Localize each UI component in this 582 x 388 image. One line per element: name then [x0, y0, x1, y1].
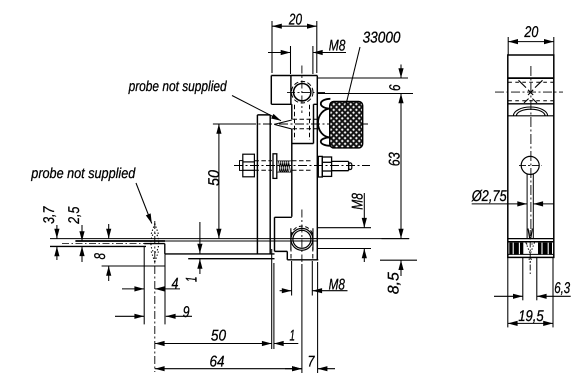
- dim 20 top: [272, 21, 317, 73]
- dim 9: [115, 315, 192, 317]
- top circle thread dashed: [291, 81, 313, 103]
- upper probe hidden lines dashed: [293, 105, 318, 140]
- side probe upper shaft: [528, 229, 532, 239]
- svg-text:4: 4: [172, 275, 179, 292]
- clamp block bottom: [102, 265, 165, 267]
- right bolt shaft: [332, 161, 349, 170]
- top circle centerlines: [287, 66, 326, 114]
- side view outline: [508, 55, 554, 257]
- dim 6,3: [494, 258, 571, 300]
- svg-text:1: 1: [290, 327, 296, 344]
- left plate: [257, 115, 270, 254]
- probe clamp band: [508, 239, 554, 255]
- top circle outer: [294, 84, 311, 101]
- svg-text:6: 6: [387, 84, 404, 91]
- dim 20 side: [508, 37, 554, 55]
- column left edge: [291, 104, 293, 216]
- top plate outline: [271, 76, 317, 105]
- knurl band lines: [508, 78, 554, 104]
- svg-text:8: 8: [92, 253, 109, 260]
- rail bottom edge: [50, 245, 146, 247]
- slot bottom and inner vertical: [292, 104, 318, 143]
- bottom circle boss flats: [291, 228, 313, 250]
- svg-text:50: 50: [206, 170, 223, 186]
- svg-text:7: 7: [308, 353, 316, 370]
- svg-text:33000: 33000: [363, 29, 401, 46]
- svg-text:9: 9: [183, 304, 190, 321]
- leader 33000: [346, 47, 361, 107]
- knurled knob K33000: [330, 101, 363, 147]
- svg-text:63: 63: [386, 152, 403, 166]
- knurl band dashes: [508, 82, 553, 101]
- svg-text:19,5: 19,5: [518, 308, 544, 325]
- clamp hatch blocks: [509, 243, 552, 255]
- svg-text:Ø2,75: Ø2,75: [471, 188, 507, 205]
- right hex nut: [322, 157, 331, 176]
- svg-text:M8: M8: [329, 277, 346, 294]
- left probe dotted: [151, 224, 159, 263]
- svg-text:50: 50: [211, 328, 227, 345]
- svg-text:3,7: 3,7: [41, 206, 58, 224]
- left washer: [273, 154, 277, 179]
- dim M8 bottom: [280, 261, 348, 296]
- leader top: [232, 96, 281, 121]
- rail top surface line: [50, 238, 409, 240]
- dim 7 bottom: [285, 262, 335, 373]
- bolt axis centerline: [234, 165, 370, 167]
- svg-text:probe not supplied: probe not supplied: [128, 79, 228, 95]
- clamp block edges / ext lines: [144, 246, 165, 324]
- svg-text:M8: M8: [329, 37, 346, 54]
- side hole ticks: [519, 164, 542, 166]
- dim 50 bottom: [155, 249, 274, 349]
- dim 1 vertical: [199, 222, 201, 274]
- side probe centerline below: [529, 230, 531, 276]
- side arc line: [508, 115, 554, 117]
- leader left: [136, 183, 152, 224]
- bottom hidden thread verticals: [291, 247, 313, 260]
- left hex nut: [243, 154, 255, 177]
- left bolt stub: [240, 161, 244, 171]
- bottom circle inner: [293, 230, 311, 248]
- svg-text:6,3: 6,3: [554, 280, 570, 297]
- dim 1 bottom: [274, 343, 298, 345]
- dim 2,5: [81, 225, 83, 262]
- dim 64 bottom: [155, 264, 302, 373]
- probe centerline left: [154, 221, 156, 372]
- side probe dotted: [526, 243, 535, 263]
- rail top edge: [75, 240, 165, 242]
- bolt hidden lines: [254, 161, 313, 171]
- dim 50 vertical: [213, 124, 249, 239]
- dim 19,5: [508, 258, 553, 327]
- bottom circle vert centerline: [301, 210, 303, 263]
- svg-text:8,5: 8,5: [386, 272, 403, 294]
- dim 4: [122, 288, 180, 290]
- body right edge: [316, 76, 318, 260]
- upper probe cone: [274, 120, 292, 129]
- svg-text:20: 20: [524, 24, 539, 41]
- spring section: [278, 161, 292, 172]
- knurl marks: [519, 80, 543, 103]
- right washer: [318, 156, 322, 177]
- dim 6 right: [318, 65, 413, 94]
- bottom circle outer: [291, 228, 313, 250]
- wave washer scallops: [318, 99, 330, 146]
- svg-text:1: 1: [184, 277, 201, 283]
- dim 63 right: [382, 94, 410, 239]
- svg-text:20: 20: [288, 12, 302, 29]
- dim 8,5 right: [380, 260, 417, 276]
- hole walls 2.75: [527, 174, 533, 238]
- svg-text:2,5: 2,5: [66, 206, 83, 224]
- rail section centerline: [62, 243, 145, 245]
- svg-text:64: 64: [210, 354, 225, 371]
- dim 8: [108, 224, 110, 281]
- dim 3,7: [56, 225, 58, 260]
- bottom thread dashed arc: [291, 226, 313, 236]
- dim M8 top: [268, 46, 346, 74]
- svg-text:probe not supplied: probe not supplied: [30, 166, 136, 182]
- step to clamp: [275, 217, 319, 259]
- side double arc: [513, 107, 547, 116]
- side hole circle: [521, 156, 539, 174]
- dim M8 rotated: [318, 193, 372, 262]
- knob axis centerline: [247, 123, 369, 125]
- side centre cross: [495, 66, 563, 230]
- top plate inner vertical: [290, 76, 292, 105]
- svg-text:M8: M8: [349, 193, 366, 210]
- holder step: [144, 244, 274, 259]
